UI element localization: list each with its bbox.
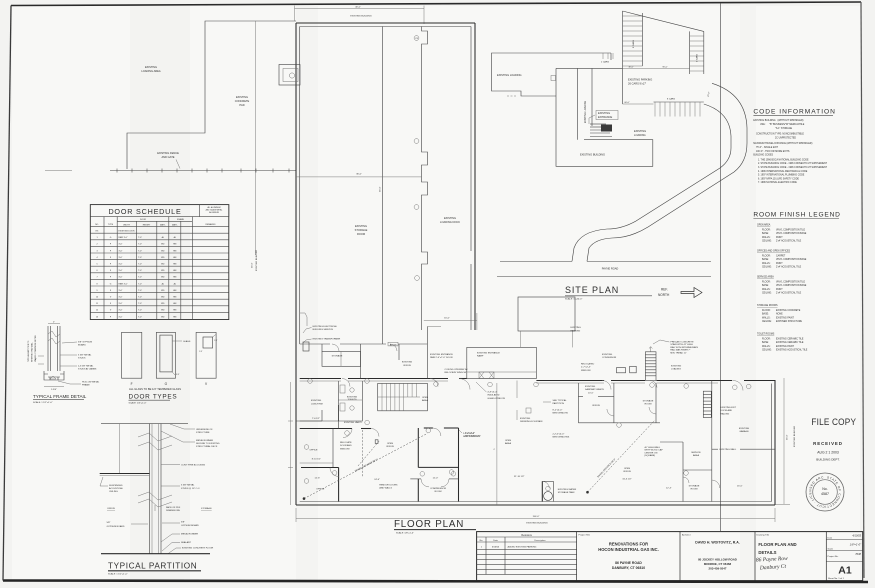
- svg-text:EXISTING WATER: EXISTING WATER: [558, 488, 577, 491]
- svg-text:3 5/8" METAL: 3 5/8" METAL: [181, 484, 195, 487]
- svg-text:3'-0": 3'-0": [119, 303, 123, 305]
- svg-text:EXISTING CERAMIC TILE: EXISTING CERAMIC TILE: [776, 341, 804, 344]
- leader metal runner top: [161, 431, 195, 442]
- svg-text:SUSPENDED: SUSPENDED: [109, 485, 123, 487]
- svg-text:CEILING:: CEILING:: [762, 241, 772, 243]
- parking dim line: [623, 68, 690, 70]
- svg-text:BUILDING DEPT.: BUILDING DEPT.: [816, 458, 840, 462]
- svg-text:5 3/4": 5 3/4": [51, 389, 57, 391]
- svg-text:40" HIGH WALL: 40" HIGH WALL: [644, 446, 661, 449]
- svg-text:CONCRETE: CONCRETE: [235, 99, 250, 103]
- svg-text:86 PAYNE ROAD: 86 PAYNE ROAD: [615, 561, 642, 565]
- frame jamb section vertical studs: [47, 326, 49, 371]
- building left wall (double): [295, 23, 297, 505]
- svg-text:WALLS:: WALLS:: [762, 288, 771, 291]
- freight stair: [645, 352, 656, 381]
- slanted top lot line: [623, 11, 704, 31]
- svg-text:16'-6 1/2": 16'-6 1/2": [622, 479, 631, 481]
- svg-text:EXISTING: EXISTING: [671, 366, 682, 368]
- svg-text:STORAGE: STORAGE: [332, 355, 343, 358]
- svg-text:PAINT: PAINT: [776, 236, 783, 239]
- svg-text:7'-0": 7'-0": [138, 310, 142, 312]
- loading strip verticals: [577, 68, 579, 139]
- svg-text:VINYL COMPOSITION TILE: VINYL COMPOSITION TILE: [776, 229, 805, 231]
- door tag circle: [414, 139, 419, 144]
- suspended ceiling line: [100, 473, 150, 475]
- svg-text:7'-0": 7'-0": [138, 244, 142, 246]
- svg-text:AND WALLS: AND WALLS: [379, 487, 392, 490]
- svg-text:AUG 2 1 2003: AUG 2 1 2003: [817, 451, 839, 455]
- title block outer frame: [477, 532, 863, 581]
- svg-text:GARAGE: GARAGE: [739, 430, 749, 433]
- svg-text:2'x4' ACOUSTICAL TILE: 2'x4' ACOUSTICAL TILE: [776, 292, 802, 295]
- svg-text:WD: WD: [161, 277, 165, 279]
- svg-text:3'-0": 3'-0": [119, 250, 123, 252]
- svg-text:BASE:: BASE:: [762, 232, 769, 235]
- door tag circle: [414, 205, 419, 210]
- title side note box: [200, 205, 229, 217]
- svg-text:36'-0": 36'-0": [380, 186, 382, 192]
- site building outline left block: [492, 53, 612, 96]
- svg-text:RELOCATE WINDOW: RELOCATE WINDOW: [445, 371, 468, 374]
- svg-text:7038: 7038: [855, 552, 861, 556]
- svg-text:INTERSECTING WALL: INTERSECTING WALL: [31, 342, 34, 362]
- svg-text:OPEN: OPEN: [624, 468, 631, 470]
- svg-text:HM: HM: [173, 316, 176, 318]
- svg-text:80 JOCKEY HOLLOW ROAD: 80 JOCKEY HOLLOW ROAD: [698, 558, 737, 562]
- svg-text:7'-0": 7'-0": [138, 257, 142, 259]
- svg-text:GYPSUM BOARD: GYPSUM BOARD: [107, 525, 125, 528]
- svg-text:SCALE: 1 1/2"=1'-0": SCALE: 1 1/2"=1'-0": [33, 401, 53, 404]
- svg-text:Project No.: Project No.: [828, 555, 839, 558]
- svg-text:MONROE, CT 06468: MONROE, CT 06468: [704, 562, 732, 566]
- svg-text:WINDOW: WINDOW: [340, 448, 351, 450]
- svg-text:STUDS AT JAMBS: STUDS AT JAMBS: [78, 368, 97, 371]
- svg-text:12'-4": 12'-4": [666, 488, 672, 490]
- svg-text:8'-10 1/2": 8'-10 1/2": [312, 458, 321, 460]
- svg-text:VINYL COMPOSITION BASE: VINYL COMPOSITION BASE: [776, 258, 807, 261]
- north arrow: [681, 288, 702, 298]
- svg-text:12'-0": 12'-0": [433, 478, 439, 480]
- svg-text:EXISTING ENTRANCE: EXISTING ENTRANCE: [477, 352, 500, 355]
- bottom dim line 150'-0": [296, 518, 775, 520]
- svg-text:EXISTING: EXISTING: [598, 111, 610, 115]
- svg-text:7'-6 1/2": 7'-6 1/2": [312, 418, 320, 420]
- revisions table: [477, 537, 577, 574]
- svg-text:GLASS WINDOW: GLASS WINDOW: [487, 397, 505, 400]
- svg-text:EXISTING CONCRETE FLOOR: EXISTING CONCRETE FLOOR: [182, 548, 214, 550]
- svg-text:ROOM: ROOM: [435, 491, 442, 493]
- svg-text:FLOOR:: FLOOR:: [762, 338, 771, 340]
- svg-text:STORAGE: STORAGE: [689, 485, 700, 488]
- dimension line 36'-0" existing building (vertical): [254, 21, 256, 255]
- storage room (mid): [655, 383, 657, 423]
- right info column: [826, 540, 862, 562]
- svg-text:SCALE: 1 1/2"=1'-0": SCALE: 1 1/2"=1'-0": [108, 573, 128, 576]
- svg-text:2. STATE BUILDING CODE - 1996: 2. STATE BUILDING CODE - 1996 CONNECTICU…: [758, 162, 828, 165]
- svg-text:203-459-0547: 203-459-0547: [708, 566, 726, 570]
- 5/8 gypsum board right: [162, 522, 180, 524]
- svg-text:31'-10 1/2": 31'-10 1/2": [514, 476, 525, 478]
- svg-text:CARPET: CARPET: [776, 254, 786, 257]
- svg-text:150'-0": 150'-0": [533, 516, 540, 518]
- svg-text:LUNCH RM: LUNCH RM: [311, 403, 323, 405]
- dim marks V: [213, 334, 217, 337]
- svg-text:SECURE TO EXISTING: SECURE TO EXISTING: [196, 443, 220, 445]
- floor line: [101, 553, 210, 555]
- svg-text:CENTER ON: CENTER ON: [644, 452, 657, 454]
- svg-text:OPEN: OPEN: [422, 397, 429, 399]
- road curve inner: [572, 104, 731, 261]
- svg-text:HM: HM: [173, 244, 176, 246]
- door tag circle C3 top: [414, 36, 419, 41]
- underside of structure line: [101, 423, 188, 425]
- svg-text:2'x4' ACOUSTICAL TILE: 2'x4' ACOUSTICAL TILE: [776, 240, 802, 243]
- svg-text:WD: WD: [161, 244, 165, 246]
- svg-text:7'-0": 7'-0": [138, 277, 142, 279]
- svg-text:CEILING:: CEILING:: [762, 350, 772, 352]
- svg-text:NEW WINDOW: NEW WINDOW: [553, 413, 569, 415]
- svg-text:HM: HM: [173, 270, 176, 272]
- svg-text:SCALE: 1"=40'-0": SCALE: 1"=40'-0": [565, 297, 582, 300]
- small door mark: [551, 76, 556, 81]
- svg-text:HM: HM: [173, 277, 176, 279]
- svg-text:WD: WD: [161, 310, 165, 312]
- svg-text:A1: A1: [838, 565, 852, 577]
- svg-text:WD: WD: [161, 250, 165, 252]
- svg-text:EXISTING EXIT: EXISTING EXIT: [720, 407, 736, 409]
- svg-text:36'-0": 36'-0": [356, 174, 362, 176]
- svg-text:STRUCTURE: STRUCTURE: [196, 432, 210, 434]
- svg-text:BASE:: BASE:: [762, 258, 769, 261]
- door tag circle: [415, 276, 420, 281]
- svg-text:2": 2": [53, 322, 55, 324]
- svg-text:STORAGE TANK: STORAGE TANK: [558, 491, 575, 494]
- exterior stoop: [518, 297, 575, 331]
- metal runner bottom: [161, 534, 180, 542]
- svg-text:HEIGHT: HEIGHT: [143, 225, 151, 227]
- svg-text:WIDTH: WIDTH: [123, 225, 130, 227]
- svg-text:5. 1997 INTERNATIONAL PLUMBIN: 5. 1997 INTERNATIONAL PLUMBING CODE: [758, 174, 805, 177]
- svg-text:AREA: AREA: [422, 399, 428, 402]
- svg-text:EXISTING: EXISTING: [585, 386, 596, 388]
- svg-text:STORAGE: STORAGE: [643, 400, 654, 403]
- svg-text:WD: WD: [161, 270, 165, 272]
- svg-text:16'-0": 16'-0": [737, 486, 743, 488]
- svg-text:24'-0": 24'-0": [374, 479, 380, 481]
- toilet block: [337, 381, 339, 421]
- svg-text:OFFICE: OFFICE: [107, 508, 116, 510]
- svg-text:36'-0": 36'-0": [252, 262, 254, 268]
- ceiling hanger: [118, 424, 120, 473]
- vertical parking row 2 (9 cars): [689, 31, 691, 74]
- svg-text:BASE:: BASE:: [762, 284, 769, 287]
- glass leader: [172, 340, 182, 342]
- dim ticks under G: [172, 372, 175, 375]
- svg-text:2-2'-6"x4'-0": 2-2'-6"x4'-0": [553, 434, 565, 436]
- svg-text:PARTITION: PARTITION: [553, 402, 565, 405]
- svg-text:LOADING DOCK: LOADING DOCK: [440, 220, 460, 224]
- svg-text:LOADING: LOADING: [634, 133, 646, 137]
- svg-text:RELOCATED: RELOCATED: [581, 363, 595, 366]
- svg-text:NORTH: NORTH: [658, 293, 670, 297]
- svg-text:4/10/03: 4/10/03: [852, 534, 861, 538]
- svg-text:BOARD: BOARD: [78, 344, 86, 347]
- svg-text:OFFICE: OFFICE: [386, 446, 395, 448]
- svg-text:EXISTING BUILDING: EXISTING BUILDING: [350, 16, 371, 18]
- svg-text:OFFICE: OFFICE: [592, 405, 601, 407]
- svg-text:Project Title: Project Title: [579, 534, 591, 537]
- svg-text:STUDS @ 16" O.C.: STUDS @ 16" O.C.: [181, 488, 201, 490]
- svg-text:EXISTING: EXISTING: [236, 95, 248, 99]
- svg-text:Revisions: Revisions: [521, 534, 532, 537]
- svg-text:SANITARY WASTE: SANITARY WASTE: [585, 388, 605, 391]
- svg-text:2C UNPROTECTED: 2C UNPROTECTED: [775, 137, 796, 139]
- svg-text:RAIL MAX RISER 7": RAIL MAX RISER 7": [670, 349, 690, 352]
- svg-text:FRAME: FRAME: [177, 218, 185, 221]
- svg-text:STRUCTURAL DECK: STRUCTURAL DECK: [196, 445, 218, 448]
- svg-text:METAL RUNNER: METAL RUNNER: [181, 533, 198, 536]
- exit stair right: [703, 391, 711, 417]
- svg-text:75'-0" - SINGLE EXIT: 75'-0" - SINGLE EXIT: [756, 147, 779, 149]
- svg-text:OPEN: OPEN: [505, 440, 512, 442]
- svg-text:EXISTING PARKING: EXISTING PARKING: [628, 78, 652, 82]
- svg-text:3'-0": 3'-0": [119, 277, 123, 279]
- svg-text:5/8" GYPSUM: 5/8" GYPSUM: [78, 342, 92, 344]
- svg-text:HM: HM: [173, 250, 176, 252]
- svg-text:UNDERSIDE OF: UNDERSIDE OF: [196, 429, 213, 431]
- svg-text:1. THE 1996 BOCA NATIONAL BUI: 1. THE 1996 BOCA NATIONAL BUILDING CODE: [758, 158, 809, 161]
- svg-text:7'-0": 7'-0": [138, 297, 142, 299]
- svg-text:12'-6": 12'-6": [315, 478, 321, 480]
- centerline: [496, 383, 498, 505]
- svg-text:8 CARS: 8 CARS: [667, 98, 675, 101]
- vertical dashed travel: [362, 430, 364, 477]
- svg-text:OFFICE: OFFICE: [310, 449, 319, 451]
- svg-text:EXISTING BUILDING: EXISTING BUILDING: [794, 426, 796, 447]
- svg-text:MIN. TREAD 11": MIN. TREAD 11": [670, 351, 686, 354]
- svg-text:2-3 5/8" METAL: 2-3 5/8" METAL: [78, 365, 94, 368]
- svg-text:FLOOR:: FLOOR:: [762, 229, 771, 231]
- right exterior wall: [774, 380, 776, 505]
- svg-text:5/8": 5/8": [181, 522, 185, 524]
- horizontal parking row (8 cars): [654, 101, 704, 103]
- svg-text:3'-0": 3'-0": [119, 297, 123, 299]
- svg-text:VINYL COMPOSITION TILE: VINYL COMPOSITION TILE: [776, 281, 805, 283]
- svg-text:DAVID H. WOITOVITZ, R.A.: DAVID H. WOITOVITZ, R.A.: [695, 541, 739, 545]
- svg-text:3'-0": 3'-0": [119, 310, 123, 312]
- svg-text:FLOOR:: FLOOR:: [762, 281, 771, 283]
- lower-left offices: [300, 420, 339, 422]
- svg-text:9 CARS: 9 CARS: [696, 54, 699, 62]
- svg-text:HM: HM: [173, 310, 176, 312]
- svg-text:HM: HM: [173, 264, 176, 266]
- svg-text:PAINT: PAINT: [776, 262, 783, 265]
- svg-text:EXISTING: EXISTING: [739, 428, 750, 430]
- svg-text:WD: WD: [161, 264, 165, 266]
- svg-text:36'-0": 36'-0": [787, 434, 789, 440]
- architect seal: [806, 473, 844, 511]
- svg-text:FACE OF PLN: FACE OF PLN: [166, 506, 181, 509]
- svg-text:TOILETS: TOILETS: [347, 399, 357, 401]
- svg-text:STUDS: STUDS: [78, 358, 86, 360]
- sheet right border: [861, 2, 864, 578]
- svg-text:7. 1996 NATIONAL ELECTRIC COD: 7. 1996 NATIONAL ELECTRIC CODE: [758, 181, 797, 184]
- svg-text:WALLS:: WALLS:: [762, 345, 771, 348]
- interior wall storage/loading: [382, 27, 384, 345]
- building right wall (double): [474, 23, 476, 330]
- svg-text:30'-0": 30'-0": [628, 67, 633, 69]
- svg-text:WALLS:: WALLS:: [762, 262, 771, 265]
- svg-text:Sheet No. 1 of 1: Sheet No. 1 of 1: [828, 577, 845, 580]
- svg-text:OFFICE: OFFICE: [623, 471, 632, 473]
- svg-text:8'-2"x4'-0": 8'-2"x4'-0": [553, 410, 563, 412]
- svg-text:2-2'-6"x4'-0": 2-2'-6"x4'-0": [463, 433, 475, 435]
- top edge to parking: [556, 67, 592, 69]
- svg-text:EXISTING ACOUSTICAL TILE: EXISTING ACOUSTICAL TILE: [776, 349, 808, 352]
- svg-text:EXISTING FENCE: EXISTING FENCE: [157, 151, 179, 155]
- door arcs into room above compressor: [433, 428, 441, 436]
- svg-text:2": 2": [35, 359, 37, 361]
- table rows content: [96, 231, 177, 319]
- svg-text:ENTRANCE: ENTRANCE: [598, 115, 613, 119]
- svg-text:EXISTING LOADING: EXISTING LOADING: [584, 101, 587, 124]
- svg-text:6. 1997 NFPA 101 LIFE SAFETY: 6. 1997 NFPA 101 LIFE SAFETY CODE: [758, 177, 799, 180]
- svg-text:PAYNE ROAD: PAYNE ROAD: [602, 267, 619, 271]
- svg-text:PAINT: PAINT: [776, 288, 783, 291]
- svg-text:MAXIMUM TRAVEL DISTANCE (WITHO: MAXIMUM TRAVEL DISTANCE (WITHOUT SPRINKL…: [753, 142, 812, 145]
- compressor room: [417, 479, 419, 502]
- dim 5 3/4" below: [44, 386, 64, 388]
- transformer box at plan: [303, 342, 309, 351]
- door arc below office wall: [330, 468, 339, 477]
- svg-text:4587: 4587: [821, 492, 829, 496]
- svg-text:TYPICAL PARTITION: TYPICAL PARTITION: [108, 562, 197, 571]
- loading dock wall with door bays: [422, 27, 428, 331]
- svg-text:TYPICAL FRAME DETAIL: TYPICAL FRAME DETAIL: [33, 394, 87, 399]
- office block partitions: [322, 352, 361, 367]
- svg-text:7'-0": 7'-0": [138, 264, 142, 266]
- stairwell: [378, 383, 428, 410]
- svg-text:NONE: NONE: [776, 314, 783, 316]
- svg-text:3'-0": 3'-0": [119, 316, 123, 318]
- svg-text:10'-0": 10'-0": [588, 392, 594, 394]
- svg-text:EXISTING PAINT: EXISTING PAINT: [776, 316, 795, 319]
- 2 cars ticks: [602, 53, 604, 59]
- svg-text:CEILING:: CEILING:: [762, 267, 772, 269]
- svg-text:3'-0": 3'-0": [119, 244, 123, 246]
- svg-text:EXISTING BUILDING: EXISTING BUILDING: [256, 250, 258, 271]
- svg-text:EXISTING TRANSFORMER: EXISTING TRANSFORMER: [313, 338, 341, 341]
- svg-text:OFFICES AND OPEN OFFICES: OFFICES AND OPEN OFFICES: [757, 250, 791, 253]
- svg-text:EXISTING: EXISTING: [520, 418, 531, 420]
- svg-text:OPEN: OPEN: [387, 443, 394, 445]
- svg-text:STORAGE: STORAGE: [201, 507, 212, 510]
- svg-text:ADDED EXISTING PARKING: ADDED EXISTING PARKING: [508, 546, 537, 549]
- svg-text:EXISTING: EXISTING: [444, 216, 456, 220]
- svg-text:GYPSUM BOARD: GYPSUM BOARD: [181, 524, 199, 527]
- water storage tank: [541, 481, 543, 501]
- svg-text:2'x4' ACOUSTICAL TILE: 2'x4' ACOUSTICAL TILE: [776, 266, 802, 269]
- svg-text:4. 1996 INTERNATIONAL MECHANI: 4. 1996 INTERNATIONAL MECHANICAL CODE: [758, 170, 808, 173]
- svg-text:40'-0": 40'-0": [355, 7, 361, 9]
- svg-text:RENOVATIONS FOR: RENOVATIONS FOR: [609, 542, 648, 547]
- svg-text:7'-0": 7'-0": [138, 250, 142, 252]
- svg-text:2'-7"x2'-4": 2'-7"x2'-4": [581, 367, 591, 369]
- leader 3 5/8 metal studs: [60, 354, 77, 356]
- svg-text:SCALE: 1/4"=1'-0": SCALE: 1/4"=1'-0": [129, 401, 147, 404]
- svg-text:6/16/03: 6/16/03: [492, 547, 500, 549]
- svg-text:EXISTING ELECTRICAL: EXISTING ELECTRICAL: [313, 325, 338, 328]
- break symbol: [48, 331, 60, 337]
- svg-text:VINYL COMPOSITION BASE: VINYL COMPOSITION BASE: [776, 232, 807, 235]
- svg-text:3'-0": 3'-0": [119, 270, 123, 272]
- svg-text:FLOOR:: FLOOR:: [762, 310, 771, 312]
- electrical service jog: [300, 313, 307, 326]
- svg-text:CONSTRUCTION TYPE: NONCOMBUST: CONSTRUCTION TYPE: NONCOMBUSTIBLE: [756, 134, 804, 136]
- bottom exterior wall: [296, 504, 775, 506]
- svg-text:ROOM: ROOM: [357, 232, 365, 236]
- svg-text:ALL GLASS TO BE 1/4" TEMPERED: ALL GLASS TO BE 1/4" TEMPERED GLASS: [129, 387, 181, 391]
- left small dims: [38, 355, 44, 357]
- leader 2-3 5/8 metal studs at jambs: [60, 365, 77, 367]
- aisle line + 60'-0": [623, 103, 654, 105]
- svg-text:HOCON INDUSTRIAL GAS INC.: HOCON INDUSTRIAL GAS INC.: [598, 547, 658, 552]
- dim line 40'-0" top: [295, 8, 425, 10]
- svg-text:CEILING: CEILING: [109, 491, 118, 493]
- svg-text:RECEIVED: RECEIVED: [813, 441, 843, 446]
- svg-text:ALUMINUM: ALUMINUM: [209, 211, 219, 214]
- svg-text:AREA: AREA: [693, 454, 699, 457]
- svg-text:LOADING: LOADING: [671, 368, 681, 371]
- svg-text:LOADING AREA: LOADING AREA: [141, 69, 161, 73]
- svg-text:WD: WD: [161, 290, 165, 292]
- leader cont fire blocking: [161, 464, 180, 466]
- svg-text:TYPE: TYPE: [108, 224, 114, 226]
- svg-text:SERVICE: SERVICE: [691, 452, 701, 454]
- svg-text:HM: HM: [173, 297, 176, 299]
- svg-text:EXISTING ENTRANCE: EXISTING ENTRANCE: [430, 353, 453, 356]
- svg-text:No.: No.: [822, 487, 828, 491]
- existing concrete pad outline: [127, 21, 296, 169]
- leader 5/8 gypsum board: [62, 342, 77, 343]
- svg-text:8 CARS: 8 CARS: [632, 40, 635, 48]
- svg-text:7'-0": 7'-0": [138, 283, 142, 285]
- existing fence line with ticks: [110, 170, 296, 172]
- svg-text:"S-1" STORAGE: "S-1" STORAGE: [775, 127, 793, 130]
- storage room lower right: [682, 470, 684, 502]
- svg-text:100'-0" - TWO OR MORE EXITS: 100'-0" - TWO OR MORE EXITS: [756, 151, 790, 153]
- svg-text:SITE PLAN: SITE PLAN: [565, 285, 619, 295]
- svg-text:7'-0": 7'-0": [138, 316, 142, 318]
- svg-text:NEW WINDOWS: NEW WINDOWS: [463, 436, 480, 438]
- svg-text:EXISTING CERAMIC TILE: EXISTING CERAMIC TILE: [776, 337, 804, 340]
- partition wall studs (double line with gyp each side): [149, 424, 151, 554]
- svg-text:GLASS: GLASS: [183, 340, 191, 343]
- window x-marks in vestibule: [479, 372, 494, 379]
- svg-text:METAL RUNNER: METAL RUNNER: [196, 439, 213, 442]
- road curve outer: [587, 83, 747, 261]
- svg-text:7'-0": 7'-0": [138, 270, 142, 272]
- svg-text:REF.: REF.: [661, 288, 668, 292]
- svg-text:EXPOSED STRUCTURE: EXPOSED STRUCTURE: [776, 321, 802, 323]
- svg-text:HM: HM: [173, 303, 176, 305]
- garage top wall: [744, 380, 775, 382]
- svg-text:EXISTING BUILDING (WITHOUT S: EXISTING BUILDING (WITHOUT SPRINKLER): [753, 120, 803, 122]
- svg-text:BUILDING CODES: BUILDING CODES: [753, 155, 773, 157]
- entrance steps: [590, 124, 612, 137]
- svg-text:Scale: Scale: [828, 549, 834, 551]
